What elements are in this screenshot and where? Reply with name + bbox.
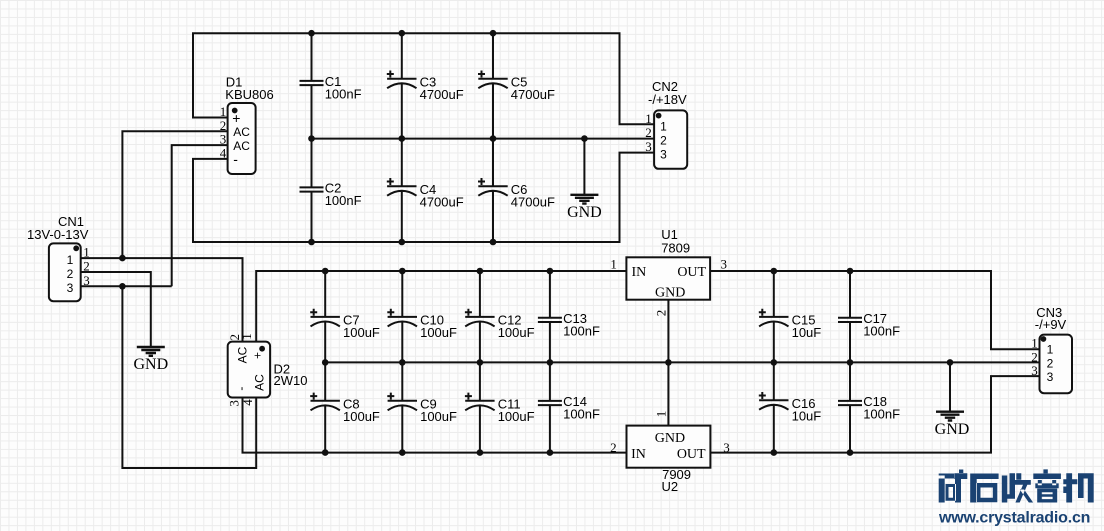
svg-text:100nF: 100nF [325, 87, 362, 102]
junction lower mid bus 6 [771, 359, 778, 366]
pin-1 indicator dot D2 [259, 346, 265, 352]
svg-text:100nF: 100nF [563, 407, 600, 422]
pin-1 indicator dot CN1 [73, 245, 79, 251]
connector CN2 body [654, 110, 687, 168]
capacitor C11 (100uF) polarized [465, 362, 495, 452]
wire U2 OUT bus to CN3 pin3 [710, 376, 1039, 453]
capacitor C18 (100nF) non-polarized [838, 362, 862, 452]
junction node AC1 at CN1 pin1 [119, 255, 126, 262]
wire lower mid bus to CN3 pin2 [325, 361, 1039, 363]
wire AC2 net down to D2 pin4 [122, 286, 256, 468]
svg-text:OUT: OUT [677, 265, 706, 280]
capacitor C3 (4700uF) polarized [387, 33, 417, 138]
svg-text:GND: GND [133, 356, 168, 373]
junction top bus 3 [490, 30, 497, 37]
svg-text:1: 1 [1031, 335, 1038, 350]
svg-text:3: 3 [83, 273, 90, 288]
svg-text:100uF: 100uF [343, 409, 380, 424]
junction lower mid bus 4 [547, 359, 554, 366]
svg-text:10uF: 10uF [792, 325, 822, 340]
wire GND stem near CN2 [583, 139, 585, 195]
svg-text:2: 2 [1047, 356, 1054, 370]
pin-1 indicator dot CN2 [656, 113, 662, 119]
svg-text:2: 2 [654, 310, 669, 317]
svg-text:1: 1 [1047, 343, 1054, 357]
junction upper bottom bus 2 [399, 239, 406, 246]
voltage regulator U1 7809 body [626, 257, 710, 299]
wire GND stem near CN3 [949, 362, 951, 411]
wire D2 pin1 to +9V input bus to U1 IN [256, 271, 626, 342]
capacitor C7 (100uF) polarized [310, 271, 340, 362]
junction -9V out bus 1 [771, 449, 778, 456]
junction +9V out bus 1 [771, 268, 778, 275]
svg-text:1: 1 [610, 257, 617, 272]
wire U1 GND stem [667, 300, 669, 363]
capacitor C12 (100uF) polarized [465, 271, 495, 362]
svg-text:3: 3 [220, 132, 227, 147]
capacitor C14 (100nF) non-polarized [538, 362, 562, 452]
junction -input bus 4 [547, 449, 554, 456]
svg-text:2W10: 2W10 [274, 373, 308, 388]
connector CN3 body [1040, 335, 1073, 394]
svg-text:3: 3 [67, 281, 74, 295]
capacitor C16 (10uF) polarized [759, 362, 789, 452]
svg-text:100nF: 100nF [325, 193, 362, 208]
bridge rectifier D1 body [228, 103, 256, 174]
svg-text:1: 1 [67, 253, 74, 267]
junction lower mid bus 1 [322, 359, 329, 366]
capacitor C1 (100nF) non-polarized [300, 33, 324, 138]
svg-text:100uF: 100uF [343, 325, 380, 340]
junction lower mid bus 7 [847, 359, 854, 366]
ground symbol near CN1 [137, 347, 165, 356]
bridge rectifier D2 body [228, 342, 270, 398]
junction +input bus 1 [322, 268, 329, 275]
svg-text:IN: IN [631, 447, 646, 462]
svg-text:1: 1 [220, 104, 227, 119]
svg-text:-: - [233, 151, 238, 167]
junction lower mid bus 5 [665, 359, 672, 366]
svg-text:OUT: OUT [677, 447, 706, 462]
svg-text:100uF: 100uF [420, 409, 457, 424]
voltage regulator U2 7909 body [627, 426, 711, 468]
capacitor C13 (100nF) non-polarized [538, 271, 562, 362]
svg-text:-/+9V: -/+9V [1035, 317, 1067, 332]
junction -input bus 3 [477, 449, 484, 456]
svg-text:3: 3 [1047, 370, 1054, 384]
svg-text:AC: AC [236, 346, 250, 363]
svg-text:2: 2 [220, 118, 227, 133]
wire CN1 pin2 to ground [81, 272, 151, 347]
svg-text:GND: GND [567, 204, 602, 221]
wire CN1 pin3 right [81, 285, 172, 287]
svg-text:3: 3 [723, 440, 730, 455]
capacitor C5 (4700uF) polarized [478, 33, 508, 138]
svg-text:2: 2 [83, 259, 90, 274]
svg-text:2: 2 [610, 440, 617, 455]
svg-text:100uF: 100uF [498, 409, 535, 424]
junction lower mid bus 2 [399, 359, 406, 366]
svg-text:+: + [251, 352, 265, 359]
svg-text:2: 2 [660, 133, 667, 147]
svg-text:KBU806: KBU806 [225, 87, 273, 102]
ground symbol near CN2 [570, 195, 598, 204]
ground symbol near CN3 [936, 412, 964, 421]
svg-text:www.crystalradio.cn: www.crystalradio.cn [938, 510, 1090, 527]
svg-text:U2: U2 [662, 479, 679, 494]
junction upper bottom bus 1 [308, 239, 315, 246]
junction upper mid bus 1 [308, 135, 315, 142]
junction +input bus 4 [547, 268, 554, 275]
wire D1 pin4 to bottom bus to CN2 pin3 [193, 153, 654, 242]
svg-text:-: - [234, 387, 248, 391]
svg-text:3: 3 [660, 147, 667, 161]
svg-text:1: 1 [239, 333, 254, 340]
junction upper mid bus 2 [399, 135, 406, 142]
capacitor C6 (4700uF) polarized [478, 139, 508, 242]
junction +input bus 3 [477, 268, 484, 275]
junction lower mid bus 3 [477, 359, 484, 366]
junction upper bottom bus 3 [490, 239, 497, 246]
svg-text:GND: GND [935, 421, 970, 438]
svg-text:3: 3 [645, 139, 652, 154]
wire D2 pin3 to -9V input bus to U2 IN [243, 398, 627, 453]
svg-text:GND: GND [655, 431, 685, 446]
svg-text:AC: AC [253, 374, 267, 391]
pin-1 indicator dot CN3 [1041, 336, 1047, 342]
svg-text:13V-0-13V: 13V-0-13V [27, 227, 89, 242]
junction top bus 1 [308, 30, 315, 37]
svg-text:IN: IN [632, 265, 647, 280]
wire D1 pin1 to top bus to CN2 pin1 [193, 33, 654, 124]
pin-1 indicator dot D1 [232, 108, 238, 114]
junction lower mid bus 8 [947, 359, 954, 366]
svg-text:2: 2 [67, 267, 74, 281]
svg-text:100uF: 100uF [420, 325, 457, 340]
svg-text:4700uF: 4700uF [511, 194, 555, 209]
junction top bus 2 [399, 30, 406, 37]
wire U2 GND stem [667, 362, 669, 425]
svg-text:4: 4 [240, 399, 255, 406]
capacitor C17 (100nF) non-polarized [838, 271, 862, 362]
svg-text:100uF: 100uF [498, 325, 535, 340]
watermark logo (blue CJK-style marks) [938, 469, 1094, 526]
svg-text:1: 1 [83, 245, 90, 260]
svg-text:100nF: 100nF [863, 407, 900, 422]
svg-text:1: 1 [660, 119, 667, 133]
junction -input bus 1 [322, 449, 329, 456]
svg-text:3: 3 [721, 257, 728, 272]
capacitor C8 (100uF) polarized [310, 362, 340, 452]
capacitor C2 (100nF) non-polarized [300, 139, 324, 242]
svg-text:10uF: 10uF [792, 408, 822, 423]
junction upper mid bus 3 [490, 135, 497, 142]
capacitor C15 (10uF) polarized [759, 271, 789, 362]
svg-text:AC: AC [233, 125, 250, 139]
junction +9V out bus 2 [847, 268, 854, 275]
svg-text:4700uF: 4700uF [511, 87, 555, 102]
capacitor C4 (4700uF) polarized [387, 139, 417, 242]
svg-text:7809: 7809 [661, 241, 690, 256]
svg-text:1: 1 [654, 411, 669, 418]
wire upper mid bus to CN2 pin2 [312, 138, 655, 140]
svg-text:100nF: 100nF [863, 324, 900, 339]
svg-text:4700uF: 4700uF [420, 87, 464, 102]
wire CN1 pin1 to D2 pin2 [81, 258, 243, 342]
junction node AC2 at CN1 pin3 [119, 283, 126, 290]
svg-text:4: 4 [220, 145, 227, 160]
svg-text:4700uF: 4700uF [420, 194, 464, 209]
svg-text:+: + [232, 110, 240, 126]
capacitor C10 (100uF) polarized [387, 271, 417, 362]
wire D1 pin3 left and down [172, 145, 228, 286]
capacitor C9 (100uF) polarized [387, 362, 417, 452]
svg-text:3: 3 [1031, 363, 1038, 378]
svg-text:1: 1 [645, 111, 652, 126]
wire U1 OUT bus to CN3 pin1 [710, 271, 1039, 349]
junction -input bus 2 [399, 449, 406, 456]
wire D1 pin2 down to CN1 pin1 net [122, 131, 227, 258]
junction +input bus 2 [399, 268, 406, 275]
svg-text:-/+18V: -/+18V [648, 92, 687, 107]
junction upper mid bus 4 [581, 135, 588, 142]
connector CN1 body [49, 243, 81, 301]
svg-text:100nF: 100nF [563, 324, 600, 339]
svg-text:GND: GND [655, 285, 685, 300]
svg-text:2: 2 [645, 125, 652, 140]
junction -9V out bus 2 [847, 449, 854, 456]
